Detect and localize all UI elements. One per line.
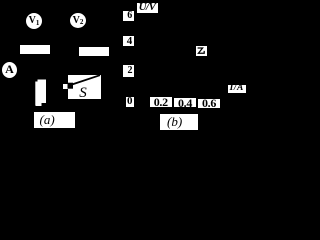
y tick 2 (123, 65, 134, 77)
y tick 4 (123, 36, 134, 46)
y tick 6 (123, 11, 134, 21)
voltmeter V2 (70, 13, 86, 28)
switch terminal tab (63, 84, 68, 89)
x tick 0.4 (174, 98, 196, 107)
switch label S (77, 87, 89, 99)
switch S body box (68, 75, 101, 100)
x tick 0.2 (150, 97, 172, 107)
axis label I/A (228, 85, 246, 94)
caption (a) (34, 112, 75, 128)
resistor R2 (79, 47, 109, 56)
resistor R1 (20, 45, 50, 54)
x tick 0.6 (198, 99, 220, 108)
caption (b) (160, 114, 198, 130)
battery (35, 79, 47, 107)
switch lever (72, 75, 100, 84)
switch pivot (68, 83, 74, 89)
axis label U/V (137, 3, 158, 13)
voltmeter V1 (26, 13, 42, 29)
ammeter A (2, 62, 17, 78)
curve label 乙 (196, 46, 207, 56)
origin 0 (126, 97, 135, 107)
